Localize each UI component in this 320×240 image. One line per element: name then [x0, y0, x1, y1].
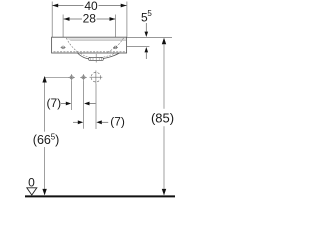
- dimension (66^5) up arrow: [42, 76, 46, 83]
- left tap hole cross: [61, 46, 66, 48]
- dimension 28 left arrow: [64, 17, 70, 21]
- hidden bowl wall right (dashed): [107, 38, 124, 53]
- extension line left of 28 / left tap hole axis: [62, 15, 64, 51]
- reference line 5.5 below top: [127, 46, 149, 48]
- drain hole symbol with dashed circle: [90, 71, 103, 84]
- bowl underside curve: [78, 53, 120, 59]
- svg-text:(85): (85): [151, 110, 174, 125]
- fixing hole symbol 2: [80, 74, 87, 81]
- dimension 28 line: [64, 18, 116, 20]
- right tap hole cross: [113, 46, 118, 48]
- drain flange ribs: [91, 58, 102, 60]
- svg-text:5: 5: [147, 9, 152, 18]
- axis line below hole 2: [83, 81, 85, 129]
- axis line below drain: [95, 84, 97, 129]
- dimension 40 right arrow: [121, 4, 127, 8]
- dimension 40 left arrow: [52, 4, 58, 8]
- extension line right of 40: [126, 2, 128, 38]
- dimension (85) up arrow: [162, 38, 166, 45]
- svg-text:0: 0: [28, 175, 35, 189]
- svg-text:): ): [55, 133, 59, 147]
- dimension (7) second right arrow: [96, 120, 101, 124]
- dimension (7) first left arrow: [61, 103, 66, 105]
- basin inner back rim shading: [67, 38, 127, 40]
- svg-text:(7): (7): [110, 115, 125, 129]
- dimension 5^5 lower arrow (up): [145, 47, 149, 52]
- dimension (85) down arrow: [162, 189, 166, 196]
- dimension (85) line upper part: [163, 44, 165, 108]
- dimension (7) first right arrow: [84, 102, 89, 106]
- bowl underside inner dashed arc: [81, 53, 115, 58]
- dimension 28 right arrow: [110, 17, 116, 21]
- dimension (66^5) down arrow: [42, 189, 46, 196]
- extension line left of 40: [51, 2, 53, 38]
- floor line: [25, 195, 175, 197]
- dimension 40 line: [52, 5, 126, 7]
- dimension (85) line lower part: [163, 126, 165, 194]
- washbasin body outline: [52, 37, 127, 53]
- axis line below hole 1: [71, 81, 73, 110]
- extension line right of 28 / right tap hole axis: [115, 15, 117, 51]
- dimension (66^5) line upper part: [44, 82, 46, 131]
- hidden bowl wall left (dashed): [66, 38, 78, 53]
- svg-text:(66: (66: [33, 133, 51, 147]
- dimension 5^5 upper arrow (down): [145, 23, 147, 32]
- floor datum triangle: [27, 188, 37, 195]
- svg-text:(7): (7): [46, 96, 61, 110]
- dimension (7) second left arrow: [73, 121, 78, 123]
- basin inner rim line: [70, 40, 126, 42]
- dimension (66^5) line lower part: [44, 147, 46, 195]
- svg-text:28: 28: [83, 12, 97, 26]
- reference line from 66.5 arrow to fixing holes: [44, 76, 68, 78]
- hidden basin bottom line (dashed): [54, 51, 126, 53]
- drain flange: [89, 58, 104, 61]
- reference line basin top edge: [127, 36, 172, 38]
- fixing hole symbol 1: [68, 74, 75, 81]
- drain axis line: [95, 54, 97, 63]
